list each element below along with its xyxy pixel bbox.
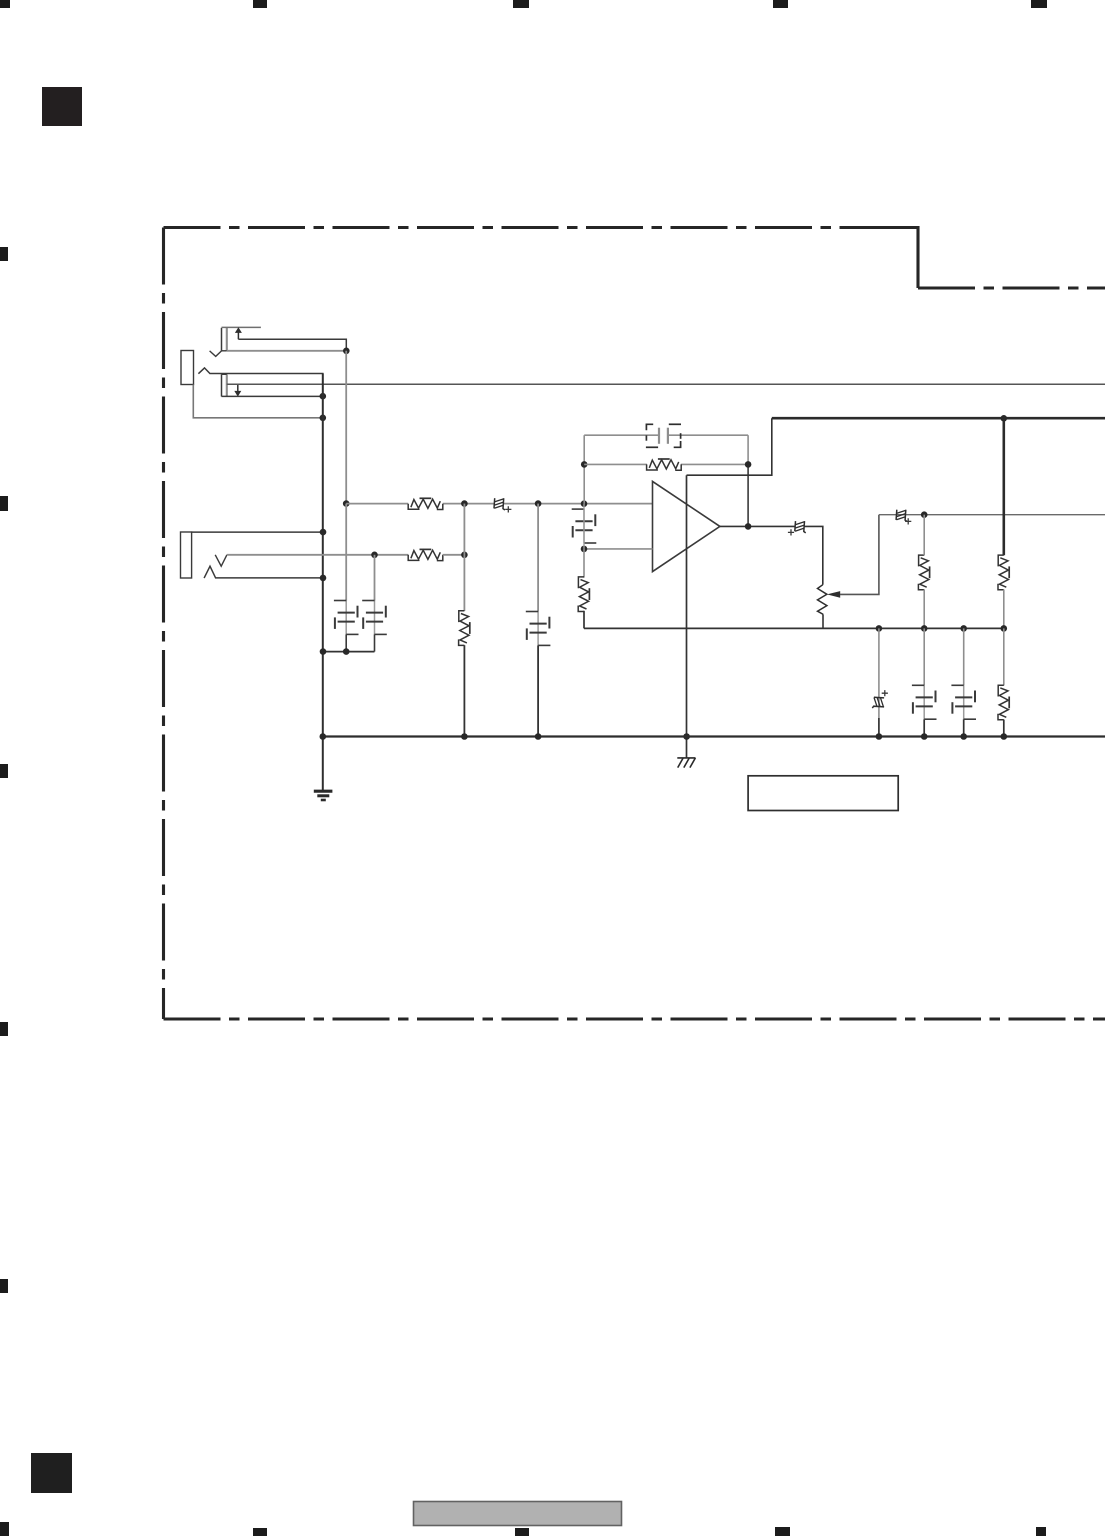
jack J1 switch arrow up [235, 327, 242, 339]
cap return wire [323, 651, 375, 653]
ground rail [323, 735, 1105, 737]
op-amp IC1 [653, 481, 720, 571]
jack J1 tip contact pair [222, 328, 227, 351]
signal wire row2 [227, 554, 408, 556]
junction dot rail c11 [960, 733, 967, 740]
registration mark left 3 [0, 764, 8, 778]
board outline right step vertical [862, 228, 918, 289]
jack J2 sleeve spring contact [204, 566, 323, 578]
junction dot J1 tip node [343, 348, 350, 355]
jack J1 ring spring contact [198, 368, 322, 396]
VR1 wiper wire [840, 515, 879, 595]
junction dot non-inverting node [581, 546, 588, 553]
VR1 lower lead [822, 614, 824, 628]
C3 lower lead [345, 634, 347, 651]
C8 polarity plus [905, 518, 911, 524]
signal wire row1 [346, 503, 652, 505]
junction dot row2 right [461, 552, 468, 559]
junction dot feedback left [581, 461, 588, 468]
capacitor C1 coupling row1 [494, 498, 505, 510]
C5 wire behind [583, 504, 585, 549]
registration mark bottom 5 [1036, 1527, 1046, 1536]
capacitor C9 branch wire [878, 628, 880, 736]
registration mark top-left corner [0, 0, 10, 8]
resistor R5 feedback [647, 459, 682, 470]
registration mark top 4 [773, 0, 788, 8]
junction dot return on bus [320, 648, 327, 655]
chassis ground symbol [677, 758, 695, 768]
jack J1 break contact V [210, 351, 222, 357]
resistor R1 row1 [408, 498, 443, 509]
C4 lower lead [374, 634, 376, 651]
capacitor C11 [951, 685, 976, 719]
junction dot supply branch [1001, 415, 1008, 422]
bias bottom line [584, 627, 1004, 629]
junction dot rail bus [320, 733, 327, 740]
junction dot wiper line [921, 511, 928, 518]
resistor R7 [918, 555, 929, 590]
junction dot ground rail opamp [683, 733, 690, 740]
capacitor C6 feedback plates [659, 428, 668, 444]
op-amp ground vertical [686, 475, 688, 758]
V+ supply heavy line [772, 417, 1105, 420]
C7 polarity plus [788, 529, 794, 535]
registration mark bottom-left corner [0, 1522, 9, 1536]
feedback node wire up [583, 435, 585, 504]
registration mark bottom 4 [775, 1527, 790, 1536]
wire x346 cap branch [345, 504, 347, 601]
page number block bottom-left [31, 1453, 72, 1493]
capacitor C11 branch [963, 628, 965, 736]
jack J1 body [181, 351, 194, 385]
dash-dot board outline top [164, 226, 919, 229]
R6 lower lead [1003, 590, 1005, 629]
junction dot rail c2 [535, 733, 542, 740]
junction dot J2 tip on bus [320, 529, 327, 536]
R7 leads [923, 515, 925, 629]
junction dot row1 b [535, 500, 542, 507]
junction dot bias a [876, 625, 883, 632]
junction dot bias b [921, 625, 928, 632]
jack J1 switch arrow down [234, 385, 241, 397]
wire from J1 switch to node [238, 339, 346, 351]
junction dot J2 sleeve on bus [320, 575, 327, 582]
C6 dashed optional box [646, 424, 681, 447]
R4 lower lead [583, 611, 585, 629]
C9 polarity plus [882, 690, 888, 696]
feedback cap line [584, 434, 748, 436]
junction dot ring node [320, 393, 327, 400]
jack J2 break contact V [215, 555, 227, 566]
dash-dot board outline left [162, 228, 165, 1020]
junction dot rail r3 [461, 733, 468, 740]
page number block top-left [42, 87, 82, 126]
resistor R3 to ground [459, 611, 470, 646]
heavy supply branch vertical [1002, 418, 1005, 555]
wiper output line [879, 514, 1105, 516]
registration mark bottom 3 [515, 1528, 529, 1536]
op-amp power rail path [687, 418, 772, 475]
resistor R8 branch [1003, 628, 1005, 736]
jack J2 body [181, 532, 192, 578]
resistor R4 bias [578, 577, 589, 612]
jack J1 ring line [222, 395, 323, 397]
junction dot row1 a [461, 500, 468, 507]
registration mark left 2 [0, 496, 8, 511]
wire row2 right [443, 554, 465, 556]
feedback resistor line [584, 463, 748, 465]
jack J1 tip top line [222, 326, 261, 328]
registration mark top 3 [513, 0, 529, 8]
junction dot rail c10 [921, 733, 928, 740]
feedback right vertical [747, 435, 749, 526]
capacitor C5 between inputs [572, 509, 597, 543]
junction dot return c3 [343, 648, 350, 655]
junction dot bias c [960, 625, 967, 632]
jack J2 tip wire [192, 531, 323, 533]
potentiometer VR1 [818, 585, 827, 615]
resistor R8 [998, 685, 1009, 720]
earth ground symbol [314, 791, 333, 800]
junction dot output node [745, 523, 752, 530]
registration mark top 5 [1031, 0, 1047, 8]
jack J1 sleeve wire [193, 385, 322, 418]
junction dot feedback right [745, 461, 752, 468]
dash-dot board outline right top [918, 286, 1105, 289]
registration mark bottom 2 [253, 1528, 267, 1536]
registration mark left 1 [0, 247, 8, 261]
long signal wire to right edge [227, 383, 1105, 385]
capacitor C9 polarized [872, 697, 884, 708]
resistor R6 supply [998, 555, 1009, 590]
op-amp + input stub [584, 548, 653, 550]
junction dot rail c9 [876, 733, 883, 740]
capacitor C7 output coupling [795, 521, 806, 533]
footer gray label box [414, 1502, 622, 1526]
wire x346 from tip node down [345, 351, 347, 504]
capacitor C8 wiper coupling [896, 510, 907, 522]
wire x374 cap branch [374, 555, 376, 601]
registration mark left 4 [0, 1022, 8, 1036]
junction dot op-amp inverting node [581, 500, 588, 507]
registration mark left 5 [0, 1279, 8, 1293]
dash-dot board outline bottom [164, 1017, 1105, 1020]
part number box [748, 776, 898, 811]
junction dot row1 left [343, 500, 350, 507]
VR1 wiper arrow [827, 591, 840, 598]
resistor R2 row2 [408, 549, 443, 560]
junction dot bias d [1001, 625, 1008, 632]
C1 polarity plus [505, 506, 511, 512]
wire x465 branch [463, 504, 465, 737]
capacitor C10 branch [923, 628, 925, 736]
wire x538 branch [537, 504, 539, 737]
jack J1 ring contact pair [222, 374, 227, 396]
capacitor C2 to ground [526, 612, 551, 646]
capacitor C4 input filter [362, 601, 387, 635]
output wire to volume pot [804, 526, 823, 584]
junction dot row2 cap branch [371, 552, 378, 559]
jack J1 tip line [227, 350, 346, 352]
capacitor C10 [912, 685, 937, 719]
junction dot rail r8 [1001, 733, 1008, 740]
junction dot sleeve node [320, 415, 327, 422]
capacitor C3 input filter [334, 601, 359, 635]
wire + node down [583, 549, 585, 578]
op-amp output wire [720, 525, 795, 527]
ground bus vertical [322, 374, 324, 791]
registration mark top 2 [253, 0, 267, 8]
